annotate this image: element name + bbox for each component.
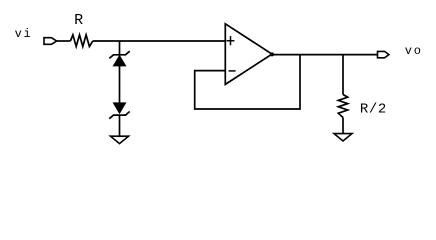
resistor R/2 [338, 95, 347, 118]
wire resistor to op-amp + input [93, 40, 226, 42]
wire D2 to ground [119, 115, 121, 136]
wire R/2 to ground [342, 118, 344, 134]
feedback wire [195, 55, 300, 109]
svg-text:vo: vo [405, 44, 423, 58]
svg-text:R: R [74, 12, 83, 29]
terminal vo [378, 51, 389, 57]
zener diode D2 cathode bar [109, 112, 129, 119]
wire terminal to resistor [57, 40, 71, 42]
ground right [334, 134, 352, 141]
node junction diode branch [119, 41, 121, 55]
zener diode D2 anode triangle [113, 103, 125, 113]
op-amp plus sign [227, 36, 235, 45]
output node dot [270, 52, 274, 56]
wire output [272, 54, 378, 56]
op-amp minus sign [229, 70, 236, 72]
zener diode D1 anode triangle [113, 56, 125, 66]
terminal vi [44, 38, 57, 45]
zener diode D1 cathode bar [109, 51, 129, 58]
op-amp U1 [225, 24, 272, 85]
resistor R [70, 35, 92, 47]
svg-text:vi: vi [15, 27, 33, 41]
wire D1 to D2 [119, 66, 121, 103]
ground left [111, 136, 129, 143]
wire output to R/2 [342, 55, 344, 95]
svg-text:R/2: R/2 [360, 102, 387, 118]
